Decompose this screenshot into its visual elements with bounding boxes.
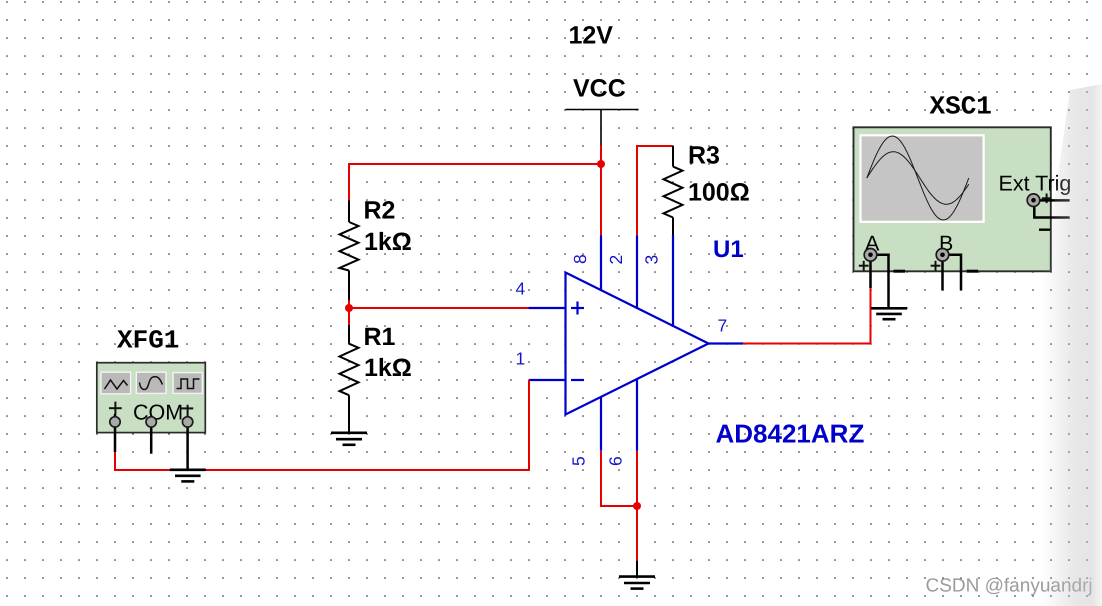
ground under XFG1 minus (170, 470, 206, 482)
resistor R3 (664, 146, 683, 235)
resistor R2 (340, 201, 359, 301)
svg-text:R2: R2 (364, 196, 396, 224)
pin 2 stub (blue) (636, 236, 638, 310)
XSC1 screen trace outer (867, 136, 969, 220)
XFG1 plus terminal lead (114, 414, 117, 452)
wire pin 1 down and left to XFG1 plus (red) (115, 380, 529, 470)
ground under channel A (871, 308, 907, 319)
Ext Trig terminal pad (1027, 194, 1040, 207)
svg-text:100Ω: 100Ω (688, 179, 750, 207)
wire node to op-amp pin 4 (red) (349, 307, 529, 309)
svg-text:R1: R1 (364, 323, 396, 351)
channel B lead stub (941, 259, 944, 291)
Ext Trig minus mark (1039, 228, 1050, 230)
node pins 5-6 junction (633, 502, 641, 510)
Ext Trig right stub (1039, 199, 1070, 202)
svg-text:2: 2 (606, 255, 626, 265)
XFG1 minus terminal pad (182, 417, 192, 427)
ground bottom center (619, 577, 655, 589)
wire pin2 up and over to R3 (red) (637, 146, 673, 236)
ground under R1 (331, 433, 367, 445)
XFG1 plus terminal mark (109, 402, 122, 415)
svg-text:VCC: VCC (573, 75, 626, 103)
svg-text:Ext Trig: Ext Trig (999, 171, 1072, 195)
Ext Trig hook (1034, 206, 1069, 218)
op-amp U1 triangle (566, 273, 709, 415)
svg-text:1: 1 (516, 348, 526, 368)
XFG1 triangle-wave button (101, 372, 131, 394)
op-amp plus mark (571, 302, 584, 315)
svg-text:3: 3 (642, 255, 662, 265)
power label 12V (569, 22, 614, 50)
svg-text:CSDN @fanyuandrj: CSDN @fanyuandrj (926, 576, 1093, 597)
svg-text:6: 6 (606, 456, 626, 466)
wire pin 6 down to ground (red) (636, 451, 638, 561)
node mid divider (345, 304, 353, 312)
XFG1 minus terminal mark (181, 405, 193, 417)
svg-text:R3: R3 (688, 142, 720, 170)
svg-text:1kΩ: 1kΩ (364, 354, 412, 382)
XFG1 square-wave button (173, 373, 202, 394)
wire junction left to R2 top (red) (349, 164, 601, 201)
op-amp minus mark (571, 379, 584, 381)
XFG1 sine-wave button (136, 372, 166, 393)
pin 8 stub (blue) (600, 236, 602, 292)
channel A minus mark (894, 270, 906, 273)
channel B minus mark (967, 270, 979, 273)
pin 7 stub (blue) (709, 342, 744, 344)
channel A lead (869, 259, 872, 288)
XFG1 COM terminal lead (150, 424, 153, 454)
wire pin 5 to lower junction (red) (601, 451, 637, 506)
function generator XFG1 body (97, 363, 206, 433)
XFG1 plus terminal pad (110, 417, 120, 427)
Ext Trig plus mark (1042, 194, 1052, 204)
wire R2 bottom to node (red) (348, 300, 350, 325)
XFG1 COM terminal pad (146, 417, 156, 427)
svg-text:4: 4 (516, 279, 526, 299)
svg-text:7: 7 (718, 316, 728, 336)
wire junction down to pin 8 (red) (600, 164, 602, 236)
svg-text:1kΩ: 1kΩ (364, 228, 412, 256)
svg-text:12V: 12V (569, 22, 614, 50)
wire pin 7 to scope A (red) (743, 288, 871, 344)
svg-text:8: 8 (570, 254, 590, 264)
channel B terminal pad (936, 249, 949, 262)
svg-text:XSC1: XSC1 (930, 92, 992, 122)
svg-text:U1: U1 (713, 236, 744, 263)
node VCC junction (597, 160, 605, 168)
pin 5 stub (blue) (600, 397, 602, 451)
channel A hook to ground (876, 255, 889, 308)
ground lead bottom center (636, 561, 638, 577)
pin 3 stub (blue) (672, 235, 674, 327)
channel B hook stub (948, 255, 961, 291)
pin 6 stub (blue) (636, 379, 638, 451)
wire VCC stub to junction (red) (600, 145, 602, 164)
pin 4 stub (blue) (529, 307, 566, 309)
power symbol VCC (566, 75, 639, 146)
resistor R1 (340, 325, 359, 433)
channel B plus mark (931, 261, 941, 271)
svg-text:AD8421ARZ: AD8421ARZ (716, 419, 865, 449)
XSC1 screen (859, 134, 984, 223)
XSC1 screen trace inner (867, 152, 969, 205)
pin 1 stub (blue) (529, 379, 566, 381)
XFG1 minus terminal lead (186, 416, 189, 470)
svg-text:XFG1: XFG1 (117, 326, 179, 356)
oscilloscope XSC1 body (854, 127, 1051, 271)
channel A terminal pad (864, 249, 877, 262)
svg-text:5: 5 (569, 456, 589, 466)
svg-text:COM: COM (133, 400, 183, 424)
channel A plus mark (859, 261, 869, 271)
